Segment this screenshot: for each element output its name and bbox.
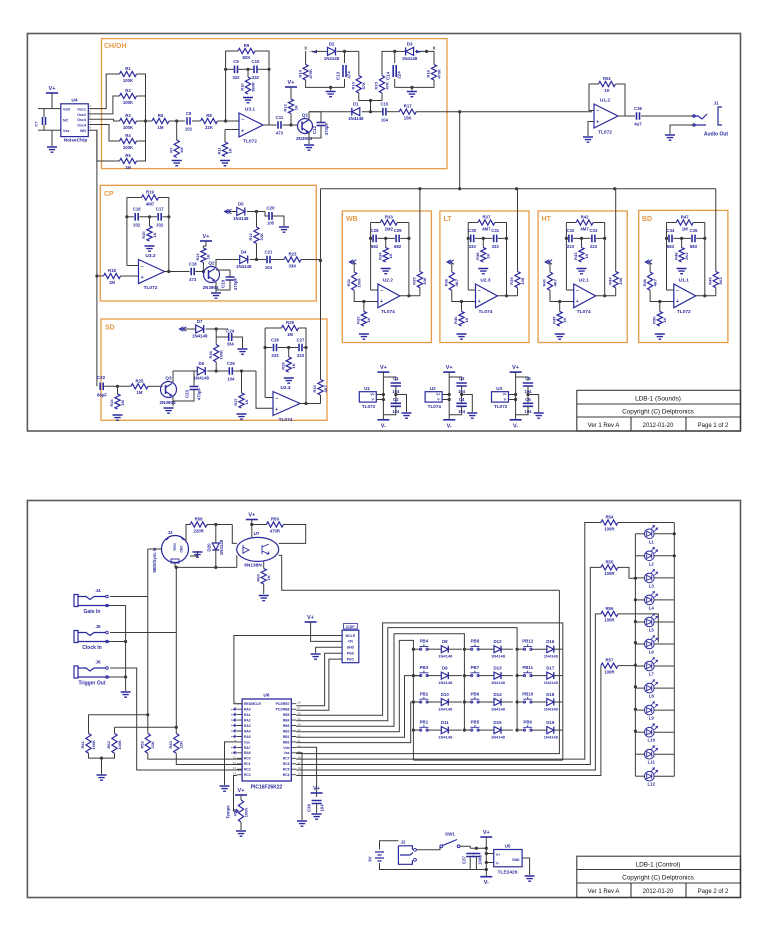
junction <box>264 346 267 349</box>
wire U5 V- pin <box>486 862 493 864</box>
wire LED right stub <box>654 775 674 777</box>
wire between caps <box>395 386 397 403</box>
capacitor None <box>391 383 401 386</box>
resistor R36 <box>449 272 454 290</box>
svg-text:D14: D14 <box>493 692 502 697</box>
resistor R59 <box>266 522 283 527</box>
svg-text:Data: Data <box>173 543 177 550</box>
svg-text:C33: C33 <box>589 228 597 233</box>
wire V- pin <box>509 399 516 401</box>
svg-text:C27: C27 <box>297 337 305 342</box>
svg-text:J1: J1 <box>713 101 719 106</box>
svg-text:D10: D10 <box>441 692 450 697</box>
wire to R20 <box>149 217 151 226</box>
ground C30 <box>312 814 322 819</box>
junction <box>485 868 488 871</box>
wire row segment <box>464 648 471 650</box>
junction <box>673 554 676 557</box>
resistor R53 <box>174 733 179 753</box>
svg-text:104: 104 <box>320 804 325 812</box>
capacitor None <box>456 403 466 406</box>
svg-text:BD: BD <box>642 216 652 223</box>
wire down to R7 <box>176 121 178 140</box>
pushbutton PB5 <box>471 729 473 731</box>
svg-text:TL072: TL072 <box>243 139 257 145</box>
wire to ground <box>462 395 473 413</box>
svg-text:V+: V+ <box>248 513 255 519</box>
junction <box>460 300 463 303</box>
svg-text:D19: D19 <box>546 720 555 725</box>
svg-text:L4: L4 <box>649 605 655 610</box>
wire C19 bottom <box>216 280 230 290</box>
svg-text:U4: U4 <box>71 98 77 104</box>
wire to R29 <box>288 348 290 358</box>
svg-text:TL072: TL072 <box>494 404 508 409</box>
op-amp U2.1 <box>574 284 596 308</box>
junction <box>634 708 637 711</box>
resistor R35 <box>417 272 422 288</box>
svg-text:C20: C20 <box>266 206 275 211</box>
off-page connector <box>447 260 454 264</box>
svg-text:C13: C13 <box>336 71 341 80</box>
svg-text:1N4148: 1N4148 <box>491 654 506 659</box>
capacitor C32 <box>569 235 572 243</box>
junction <box>214 566 217 569</box>
wire to U4 Vss pin <box>52 129 61 131</box>
svg-text:C18: C18 <box>189 261 197 266</box>
svg-text:1N4148: 1N4148 <box>438 680 453 685</box>
junction <box>144 119 147 122</box>
wire LED left stub <box>635 555 644 557</box>
jack J4 <box>74 595 78 607</box>
junction col1 <box>412 729 415 732</box>
wire to + input <box>650 290 674 301</box>
op-amp U2.3 <box>476 284 498 308</box>
svg-text:V+: V+ <box>238 788 245 794</box>
wire voice bus <box>321 188 716 190</box>
svg-text:1N4148: 1N4148 <box>192 334 208 339</box>
wire to C top <box>516 377 528 381</box>
svg-text:V+: V+ <box>313 786 320 792</box>
wire clock line down <box>175 567 177 733</box>
svg-text:22K: 22K <box>150 741 155 748</box>
wire feedback left <box>226 51 238 121</box>
svg-text:2012-01-20: 2012-01-20 <box>643 889 674 895</box>
diode D9 <box>441 672 448 679</box>
wire U4 Vss down <box>51 130 53 146</box>
junction <box>458 110 461 113</box>
junction <box>634 620 637 623</box>
resistor R1 <box>120 71 137 76</box>
wire cap right <box>498 237 507 239</box>
svg-text:R1: R1 <box>125 66 131 71</box>
svg-text:Clock In: Clock In <box>82 645 101 651</box>
ground J1 <box>665 135 675 140</box>
wire diode out <box>501 701 513 703</box>
svg-text:U7: U7 <box>254 531 260 536</box>
resistor R39 <box>515 272 520 288</box>
svg-text:×: × <box>231 735 233 739</box>
capacitor C36 <box>637 112 640 120</box>
svg-text:U2.1: U2.1 <box>579 278 589 284</box>
svg-text:C12: C12 <box>312 125 317 134</box>
wire J2 to SW1 <box>416 846 440 850</box>
resistor R7 <box>174 140 179 158</box>
wire to + input <box>550 290 574 301</box>
svg-text:470K: 470K <box>308 69 313 79</box>
svg-text:RB5: RB5 <box>283 713 290 717</box>
junction <box>304 402 307 405</box>
wire to V+ node <box>470 847 486 849</box>
wire LED left stub <box>635 643 644 645</box>
svg-text:7: 7 <box>89 120 91 124</box>
svg-text:PB8: PB8 <box>471 639 480 644</box>
svg-text:L11: L11 <box>648 760 656 765</box>
svg-text:223: 223 <box>567 244 575 249</box>
resistor R32 <box>361 311 366 326</box>
capacitor C15 <box>383 108 386 116</box>
wire - input <box>265 397 273 399</box>
svg-text:1K: 1K <box>562 318 567 323</box>
capacitor None <box>343 65 346 77</box>
wire DIN pin5 left <box>148 548 162 550</box>
svg-text:R57: R57 <box>605 658 613 663</box>
capacitor C11 <box>278 121 281 129</box>
svg-text:−: − <box>141 264 144 270</box>
svg-text:C10: C10 <box>252 59 260 64</box>
diode D20 <box>212 543 219 550</box>
svg-text:RA5: RA5 <box>244 735 251 739</box>
svg-text:C29: C29 <box>394 228 402 233</box>
ground R40 <box>457 334 467 339</box>
ground Q2 <box>211 293 221 298</box>
svg-text:333: 333 <box>469 244 477 249</box>
svg-text:100K: 100K <box>243 808 248 818</box>
svg-text:104: 104 <box>265 265 273 270</box>
wire feedback left <box>589 84 599 111</box>
wire to cap <box>667 237 668 239</box>
svg-text:R54: R54 <box>605 515 613 520</box>
junction <box>485 861 488 864</box>
svg-text:RB3: RB3 <box>283 724 290 728</box>
junction <box>634 641 637 644</box>
wire LED right stub <box>654 665 674 667</box>
wire diode out <box>554 675 563 677</box>
wire cap to cap <box>573 237 591 239</box>
svg-text:R20: R20 <box>141 231 146 239</box>
section box CP <box>100 185 316 301</box>
svg-text:R6: R6 <box>158 113 164 118</box>
svg-text:R9: R9 <box>244 43 250 48</box>
resistor R45 <box>557 311 562 326</box>
svg-text:−: − <box>576 288 579 294</box>
wire btn to diode <box>531 648 547 650</box>
wire to R62 <box>115 726 177 728</box>
svg-text:+: + <box>596 119 599 125</box>
svg-text:+: + <box>141 275 144 281</box>
junction <box>124 640 127 643</box>
svg-text:TL072: TL072 <box>362 404 376 409</box>
wire R13 bottom <box>359 93 371 101</box>
wire ICSP MCLR to U6 <box>234 636 342 704</box>
connector J2 DC jack <box>398 846 412 865</box>
svg-text:4K7: 4K7 <box>652 278 657 286</box>
wire R21 bottom <box>202 263 204 272</box>
wire to R14 <box>305 57 307 65</box>
svg-text:Copyright (C) Delptronics: Copyright (C) Delptronics <box>622 875 694 882</box>
wire DIN gnd stub <box>190 551 198 556</box>
wire fb right vertical <box>408 223 410 296</box>
IC U6 PIC16F26K22 <box>242 699 291 781</box>
svg-text:TLE2426: TLE2426 <box>498 870 518 876</box>
svg-text:V-: V- <box>447 423 452 429</box>
off-page connector <box>645 260 652 264</box>
svg-text:333: 333 <box>492 244 500 249</box>
svg-text:1K: 1K <box>266 575 271 580</box>
svg-text:C2: C2 <box>393 397 399 402</box>
wire VR1 to ground <box>240 822 242 830</box>
svg-text:R43: R43 <box>573 252 578 260</box>
svg-text:Vdd: Vdd <box>283 746 289 750</box>
wire SD feedback left <box>264 328 266 398</box>
svg-text:LT: LT <box>444 216 453 223</box>
wire D5 to C20 <box>247 211 265 213</box>
wire RB4 col3 <box>296 628 517 721</box>
resistor R8 <box>201 118 218 123</box>
wire SW1 out <box>460 846 470 848</box>
wire out to right resistor <box>517 288 519 296</box>
transistor Q2 <box>204 267 220 283</box>
wire LED right stub <box>654 555 674 557</box>
junction col3 <box>516 700 519 703</box>
junction <box>362 300 365 303</box>
junction <box>95 274 98 277</box>
svg-text:R47: R47 <box>681 215 689 220</box>
wire LED left stub <box>635 599 644 601</box>
wire row segment <box>413 729 420 731</box>
junction <box>240 369 243 372</box>
resistor R14 <box>303 65 308 81</box>
wire LED right stub <box>654 599 674 601</box>
wire R55 to rail <box>618 567 636 578</box>
wire down to C20 <box>265 212 269 217</box>
pushbutton PB2 <box>420 701 422 703</box>
resistor R29 <box>286 357 291 372</box>
svg-text:R23: R23 <box>289 252 297 257</box>
svg-text:C19: C19 <box>221 279 226 288</box>
wire Osc5/WN to R5 and noise bus <box>93 130 119 161</box>
svg-text:V-: V- <box>504 398 507 402</box>
svg-text:4K7: 4K7 <box>552 278 557 286</box>
connector ICSP <box>342 630 359 663</box>
junction <box>558 300 561 303</box>
wire to bottom resistor <box>363 302 365 312</box>
wire LED right stub <box>654 621 674 623</box>
resistor R17 <box>399 109 416 114</box>
svg-text:PB11: PB11 <box>522 665 533 670</box>
junction <box>505 294 508 297</box>
wire C22 to R25 <box>104 385 131 387</box>
wire cap right <box>596 237 605 239</box>
junction col2 <box>463 700 466 703</box>
svg-text:RC6: RC6 <box>283 762 290 766</box>
svg-text:R24: R24 <box>109 399 114 407</box>
wire to C16 <box>127 216 134 218</box>
svg-text:D3: D3 <box>407 41 413 46</box>
junction col2 <box>463 674 466 677</box>
ground R7 <box>172 161 182 166</box>
svg-text:220R: 220R <box>193 528 204 533</box>
svg-text:Osc1: Osc1 <box>77 108 86 112</box>
wire LED left stub <box>635 753 644 755</box>
wire xflag stem <box>305 51 307 57</box>
svg-text:C25: C25 <box>227 361 235 366</box>
wire U6 to R57 <box>296 666 601 776</box>
off-page connector <box>545 260 552 264</box>
svg-text:334: 334 <box>227 342 235 347</box>
junction <box>410 86 413 89</box>
wire C7 bottom <box>43 125 45 130</box>
wire bus drop R42 <box>615 189 617 272</box>
wire R25 to Q3 base <box>148 385 163 387</box>
wire - input <box>468 289 475 291</box>
svg-text:MIDI/Sync In: MIDI/Sync In <box>152 547 157 572</box>
wire to mid resistor <box>681 238 683 247</box>
wire R58 to U7 <box>207 524 233 526</box>
wire RB0 row3 <box>296 702 420 743</box>
diode D15 <box>494 727 501 734</box>
svg-text:R28: R28 <box>286 320 294 325</box>
wire D3 to xflag <box>415 50 434 52</box>
wire btn to diode <box>427 701 441 703</box>
capacitor C35 <box>692 235 695 243</box>
svg-text:RB4: RB4 <box>283 719 290 723</box>
wire btn to diode <box>427 729 441 731</box>
wire btn to diode <box>427 675 441 677</box>
ground U1.2 <box>583 137 593 142</box>
svg-text:RC5: RC5 <box>283 768 290 772</box>
wire R57 to rail <box>618 665 636 667</box>
op-amp U2.2 <box>378 284 400 308</box>
wire Q3 collector up <box>172 371 174 382</box>
wire Vdd to V+ <box>296 747 316 797</box>
svg-text:RE3/MCLR: RE3/MCLR <box>244 702 261 706</box>
svg-text:R26: R26 <box>208 350 213 358</box>
wire U2 power stem <box>448 372 450 420</box>
svg-text:1N4148: 1N4148 <box>233 216 249 221</box>
svg-text:R46: R46 <box>642 278 647 286</box>
svg-text:+5V: +5V <box>347 640 354 644</box>
wire RB1 row2 <box>296 676 420 738</box>
junction <box>673 532 676 535</box>
ground C24 <box>238 349 248 354</box>
svg-text:GND: GND <box>179 545 183 553</box>
svg-text:10K: 10K <box>422 277 427 284</box>
svg-text:1K: 1K <box>291 363 296 368</box>
op-amp U1.1 <box>674 284 696 308</box>
svg-text:R44: R44 <box>607 277 612 285</box>
svg-text:ICSP: ICSP <box>346 625 355 629</box>
wire V- pin <box>376 399 383 401</box>
junction <box>148 215 151 218</box>
wire to D3 <box>395 50 406 52</box>
jack J1 Audio Out <box>692 107 722 125</box>
junction <box>175 566 178 569</box>
capacitor C25 <box>229 367 232 375</box>
wire C23 bottom <box>173 390 194 402</box>
svg-text:C32: C32 <box>566 228 574 233</box>
wire C25 right <box>233 370 256 372</box>
svg-text:PB4: PB4 <box>420 639 429 644</box>
svg-text:U2.3: U2.3 <box>480 278 490 284</box>
svg-text:×: × <box>231 724 233 728</box>
ground R24 <box>113 415 123 420</box>
wire C21 to R23 <box>271 259 284 261</box>
svg-text:1N4148: 1N4148 <box>438 654 453 659</box>
ground R43 <box>577 269 587 274</box>
wire caps bottom <box>383 406 395 415</box>
wire U1 power stem <box>382 372 384 420</box>
svg-text:R41: R41 <box>542 278 547 286</box>
svg-text:33K: 33K <box>289 263 298 268</box>
resistor R19 <box>142 195 159 200</box>
capacitor None <box>317 123 326 126</box>
svg-text:R51: R51 <box>603 76 611 81</box>
capacitor C21 <box>267 256 270 264</box>
wire Q2 emitter <box>215 282 217 292</box>
arrow into D2 net <box>309 50 317 54</box>
wire diode out <box>501 729 513 731</box>
wire R14 bottom rail <box>306 80 345 87</box>
junction <box>505 237 508 240</box>
wire col1 to bottom <box>412 730 414 760</box>
wire - input <box>371 289 378 291</box>
op-amp U3.2 <box>139 260 165 284</box>
svg-text:C34: C34 <box>667 228 675 233</box>
junction <box>250 523 253 526</box>
wire fb left top <box>566 222 576 224</box>
svg-text:104: 104 <box>227 377 235 382</box>
wire feedback right <box>616 84 626 116</box>
svg-text:WN: WN <box>80 129 86 133</box>
wire R15 bottom <box>371 93 383 101</box>
wire ladder right bus <box>137 74 146 161</box>
wire to C12 top <box>309 112 321 123</box>
resistor R27 <box>239 393 244 408</box>
wire Q2 collector to D4 <box>216 260 240 267</box>
svg-text:Q2: Q2 <box>208 261 215 266</box>
wire btn to diode <box>478 701 494 703</box>
wire to R11 <box>224 130 226 143</box>
LED L6 <box>645 639 655 649</box>
ground U1 <box>402 413 412 418</box>
ground R61 R62 <box>97 775 107 780</box>
pushbutton PB12 <box>523 648 525 650</box>
wire U3.2 out <box>165 271 190 273</box>
wire DIN pin4 to R58 <box>186 525 190 542</box>
svg-text:TL074: TL074 <box>279 417 293 423</box>
wire fb right vertical <box>506 223 508 296</box>
svg-text:+: + <box>576 299 579 305</box>
resistor R40 <box>459 311 464 326</box>
svg-text:U1: U1 <box>364 386 370 391</box>
wire C27 right <box>303 347 306 349</box>
wire J4 sleeve to gnd bus <box>110 606 125 692</box>
svg-text:V+: V+ <box>371 393 375 397</box>
wire LED left stub <box>635 665 644 667</box>
ground U2 <box>467 413 477 418</box>
wire to ground <box>101 758 103 774</box>
